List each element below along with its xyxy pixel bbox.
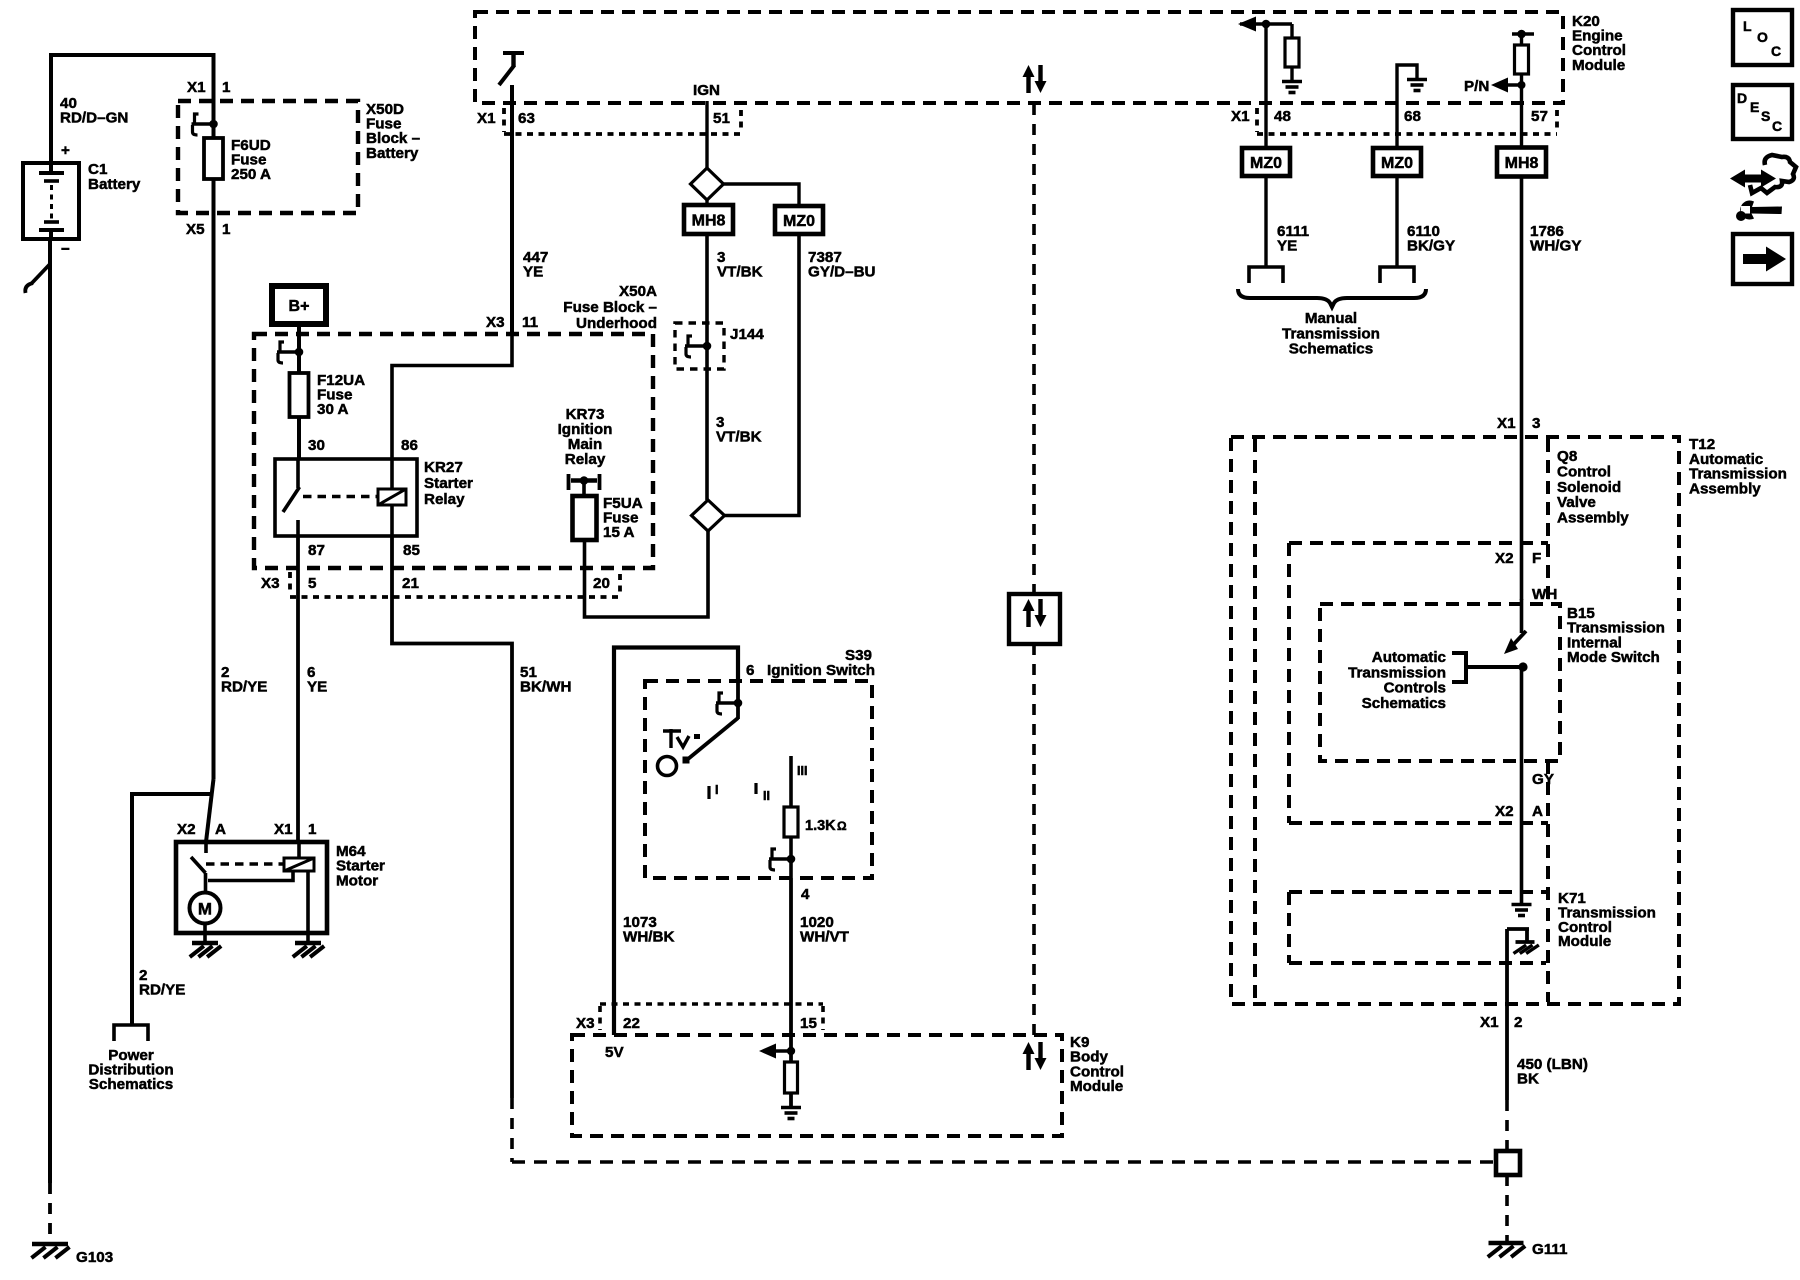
inner dashed box of T12 (right edge upper) <box>1546 439 1550 604</box>
relay KR27 Starter Relay (box) <box>275 459 417 536</box>
wire IGN stub from K20 bottom <box>705 101 708 168</box>
terminal B+ <box>272 286 326 324</box>
svg-text:5V: 5V <box>605 1044 624 1061</box>
svg-text:30 A: 30 A <box>317 401 349 418</box>
svg-text:X5: X5 <box>186 221 205 238</box>
KR73 relay contact symbol <box>567 474 571 490</box>
ignition switch S39 (dashed box) <box>645 681 872 878</box>
svg-text:YE: YE <box>1277 238 1297 255</box>
svg-text:11: 11 <box>522 314 539 331</box>
svg-text:IGN: IGN <box>693 82 720 99</box>
svg-text:Module: Module <box>1572 57 1625 74</box>
wire F12UA to relay KR27 pin 30 <box>297 417 301 459</box>
solenoid Q8 bottom edge <box>1289 541 1548 545</box>
S39 rotary contact circle <box>658 757 677 776</box>
svg-text:WH: WH <box>1532 586 1557 603</box>
wire GY <box>1520 667 1524 823</box>
wire 3 VT/BK <box>705 234 709 323</box>
svg-text:57: 57 <box>1531 108 1548 125</box>
svg-text:E: E <box>1750 99 1759 115</box>
wire motor to ground <box>203 924 207 934</box>
svg-text:85: 85 <box>403 542 420 559</box>
wire F6UD to X5 pin <box>212 179 216 213</box>
svg-text:X2: X2 <box>177 821 196 838</box>
svg-text:VT/BK: VT/BK <box>716 429 762 446</box>
icon arrow box <box>1733 234 1792 284</box>
svg-text:WH/GY: WH/GY <box>1530 238 1581 255</box>
dashed wire connector to G111 <box>1505 1175 1509 1242</box>
svg-text:Battery: Battery <box>366 145 419 162</box>
wire battery positive to fuse block (40 RD/D-GN) <box>51 55 214 173</box>
connector MH8 (pin 57) <box>1497 148 1546 177</box>
KR27 switch contact <box>296 459 300 488</box>
wire WH <box>1520 543 1524 600</box>
switch B15 Transmission Internal Mode Switch (dashed box) <box>1320 604 1560 761</box>
svg-text:86: 86 <box>401 437 418 454</box>
connector X2 box (bottom edge) <box>1289 821 1548 825</box>
junction dot B15 <box>1518 662 1527 671</box>
fuse block X50A (dashed box) <box>254 334 653 568</box>
connector MH8 (top) <box>684 205 733 234</box>
svg-text:Schematics: Schematics <box>1289 341 1373 358</box>
svg-text:A: A <box>215 821 226 838</box>
junction dot pin48 line <box>1262 20 1271 29</box>
svg-text:GY/D–BU: GY/D–BU <box>808 264 876 281</box>
S39 resistor branch wire <box>789 756 793 808</box>
motor M64 Starter Motor (box) <box>176 842 327 933</box>
wire diamond to MZ0 branch <box>724 184 800 207</box>
svg-text:Ignition Switch: Ignition Switch <box>767 662 875 679</box>
chassis ground symbol inside K71 <box>1507 927 1529 931</box>
wire 7387 GY/D-BU from MZ0 <box>725 233 800 516</box>
fuse block X50D (dashed box) <box>178 101 358 213</box>
svg-text:Fuse Block –: Fuse Block – <box>563 299 657 316</box>
svg-text:WH/VT: WH/VT <box>800 929 850 946</box>
wire KR27 pin 87 to starter motor (6 YE) <box>296 536 300 842</box>
motor symbol M <box>190 893 221 924</box>
S39 key symbol <box>663 729 689 748</box>
svg-text:G103: G103 <box>76 1249 113 1266</box>
inner dashed box of T12 (right edge lower) <box>1546 761 1550 1002</box>
position tick II <box>754 783 757 794</box>
wire 447 YE feed from K20 X1-63 <box>510 85 514 334</box>
svg-text:Battery: Battery <box>88 176 141 193</box>
svg-text:6: 6 <box>746 662 754 679</box>
svg-text:51: 51 <box>713 110 730 127</box>
ground inside K20 (pin48 branch) <box>1282 80 1302 84</box>
splice above fuse F12UA <box>277 350 299 354</box>
svg-text:Motor: Motor <box>336 872 378 889</box>
battery negative cable <box>48 239 52 1183</box>
svg-text:Schematics: Schematics <box>89 1076 173 1093</box>
splice at S39 pin 6 <box>736 681 740 719</box>
svg-text:15 A: 15 A <box>603 524 635 541</box>
svg-text:63: 63 <box>518 110 535 127</box>
KR27 relay coil <box>390 459 394 489</box>
wire 6110 BK/GY <box>1395 176 1398 267</box>
svg-text:5: 5 <box>308 575 317 592</box>
svg-text:GY: GY <box>1532 771 1554 788</box>
B15 switch blade with arrow <box>1520 599 1524 633</box>
svg-text:WH/BK: WH/BK <box>623 929 674 946</box>
icon double arrow with wrench <box>1730 170 1776 188</box>
wire KR27 pin 85 to 51 BK/WH <box>392 536 512 1098</box>
wire KR73 to fuse F5UA <box>582 480 586 498</box>
junction diamond lower <box>692 500 725 531</box>
svg-text:III: III <box>797 764 807 778</box>
resistor in K20 (pin 48 branch) <box>1290 24 1293 38</box>
svg-text:MH8: MH8 <box>1505 155 1539 172</box>
ground inside K71 <box>1512 903 1532 907</box>
svg-text:VT/BK: VT/BK <box>717 264 763 281</box>
svg-text:Module: Module <box>1558 933 1611 950</box>
svg-text:P/N: P/N <box>1464 78 1489 95</box>
dashed continuation of 51 BK/WH to TCM link <box>510 1098 514 1162</box>
wire 2 RD/YE fuse to starter (X5 to M64 X2-A) <box>212 213 216 779</box>
voltage tick for pin 57 pull-up <box>1512 32 1534 36</box>
svg-text:I: I <box>715 783 718 797</box>
position tick I <box>707 786 710 799</box>
fuse F12UA 30 A <box>290 373 309 417</box>
svg-text:BK/WH: BK/WH <box>520 679 571 696</box>
dashed wire to G103 <box>48 1183 52 1244</box>
updown arrows in BCM <box>1026 1052 1030 1070</box>
ground G111 <box>1489 1241 1524 1245</box>
KR27 actuation dashed link <box>303 495 378 499</box>
ground inside BCM <box>781 1106 801 1110</box>
S39 switch blade with contact tip <box>688 718 738 759</box>
splice J144 (dashed box) <box>675 323 724 369</box>
svg-text:X3: X3 <box>486 314 505 331</box>
svg-text:X3: X3 <box>261 575 280 592</box>
connector stub to Power Distribution Schematics <box>114 1025 148 1041</box>
svg-text:RD/D–GN: RD/D–GN <box>60 110 128 127</box>
svg-text:X50A: X50A <box>619 283 657 300</box>
svg-text:D: D <box>1737 90 1747 106</box>
module K9 Body Control Module (dashed box) <box>572 1035 1062 1136</box>
svg-text:22: 22 <box>623 1015 640 1032</box>
svg-text:1: 1 <box>222 221 231 238</box>
solenoid coil of M64 <box>297 842 301 858</box>
pin 51 wire from IGN <box>691 168 724 200</box>
svg-text:YE: YE <box>307 679 327 696</box>
svg-text:KR27: KR27 <box>424 459 463 476</box>
battery C1 box <box>23 163 79 239</box>
svg-text:O: O <box>1757 29 1768 45</box>
wire 3 VT/BK lower <box>705 369 709 500</box>
wire B+ into X50A <box>297 324 301 374</box>
svg-text:C: C <box>1771 43 1781 59</box>
connector X1 strip (left: pins 63, 51) <box>502 108 506 132</box>
svg-text:X2: X2 <box>1495 550 1514 567</box>
svg-text:X1: X1 <box>274 821 293 838</box>
svg-text:Assembly: Assembly <box>1557 510 1629 527</box>
svg-text:Schematics: Schematics <box>1362 695 1446 712</box>
svg-text:Relay: Relay <box>424 491 465 508</box>
wire into Q8 <box>1520 437 1524 543</box>
fuse F6UD 250 A <box>204 138 223 179</box>
battery plates <box>49 163 53 173</box>
svg-text:Ω: Ω <box>837 819 847 833</box>
resistor in K20 (pin 57 pull-up) <box>1520 34 1523 45</box>
module K71 Transmission Control Module (dashed box) <box>1289 890 1546 894</box>
icon LOC box <box>1733 10 1792 65</box>
connector stub 2 (manual transmission) <box>1380 267 1414 283</box>
splice below resistor <box>789 837 793 878</box>
dashed wire to TCM ground connector <box>512 1160 1494 1164</box>
svg-text:Starter: Starter <box>424 475 473 492</box>
connector MZ0 (pin 48) <box>1242 148 1290 176</box>
svg-text:MZ0: MZ0 <box>1250 155 1282 172</box>
svg-text:B+: B+ <box>289 298 310 315</box>
svg-text:Assembly: Assembly <box>1689 480 1761 497</box>
svg-text:X1: X1 <box>1480 1014 1499 1031</box>
svg-text:RD/YE: RD/YE <box>139 982 185 999</box>
svg-text:3: 3 <box>1532 415 1540 432</box>
arrow P/N <box>1491 78 1508 93</box>
svg-text:250 A: 250 A <box>231 166 271 183</box>
wire TCM ground to X1 2 <box>1505 929 1509 1100</box>
svg-text:X3: X3 <box>576 1015 595 1032</box>
svg-text:48: 48 <box>1274 108 1291 125</box>
svg-text:A: A <box>1532 803 1543 820</box>
wire diamond to MH8 <box>705 200 708 206</box>
resistor 1.3K ohm <box>784 807 798 837</box>
svg-text:MZ0: MZ0 <box>1381 155 1413 172</box>
inline connector square <box>1496 1151 1520 1175</box>
battery disconnect symbol <box>31 264 50 284</box>
svg-text:1: 1 <box>308 821 317 838</box>
wire branch to power distribution <box>132 794 210 1025</box>
updown arrows in box (serial data) <box>1009 594 1060 644</box>
wire K20 pin 57 internal <box>1520 74 1523 148</box>
svg-text:X1: X1 <box>1497 415 1516 432</box>
svg-text:4: 4 <box>801 886 810 903</box>
connector stub (manual transmission) <box>1249 267 1283 283</box>
svg-text:87: 87 <box>308 542 325 559</box>
svg-text:Underhood: Underhood <box>576 315 657 332</box>
wire into K71 to ground <box>1520 823 1524 905</box>
svg-text:−: − <box>61 241 70 258</box>
BCM internal arrow <box>759 1044 776 1059</box>
svg-text:J144: J144 <box>730 326 764 343</box>
connector X3 strip of BCM (pins 22, 15) <box>598 1006 602 1030</box>
svg-text:C: C <box>1772 118 1782 134</box>
ground under solenoid <box>306 933 310 943</box>
svg-text:20: 20 <box>593 575 610 592</box>
svg-text:RD/YE: RD/YE <box>221 679 267 696</box>
svg-text:2: 2 <box>1514 1014 1522 1031</box>
wire 447 YE into X50A to relay coil <box>392 334 512 459</box>
svg-text:G111: G111 <box>1532 1241 1568 1258</box>
M64 actuation dashed link <box>206 862 284 866</box>
bracket to schematics reference <box>1452 653 1466 682</box>
module K20 Engine Control Module (dashed box) <box>475 12 1563 103</box>
svg-text:L: L <box>1743 18 1752 34</box>
svg-text:Relay: Relay <box>565 451 606 468</box>
svg-text:MH8: MH8 <box>692 213 726 230</box>
wire coil to motor junction <box>208 871 293 881</box>
svg-text:Mode Switch: Mode Switch <box>1567 649 1660 666</box>
updown arrows on serial data line (top) <box>1026 75 1030 93</box>
svg-text:II: II <box>763 789 770 803</box>
wire 6111 YE <box>1264 176 1267 267</box>
svg-text:1: 1 <box>222 79 231 96</box>
switch inside K20 (ignition feed) <box>503 51 524 55</box>
svg-text:15: 15 <box>800 1015 817 1032</box>
wire 1020 WH/VT to BCM pin 15 <box>789 878 793 1035</box>
ground inside K20 (pin 68) <box>1407 78 1427 82</box>
wire F5UA through pin 20 to ignition feed <box>585 531 709 617</box>
svg-text:MZ0: MZ0 <box>783 213 815 230</box>
connector X1 strip (right: pins 48, 68, 57) <box>1255 108 1259 132</box>
connector MZ0 (top) <box>775 206 823 234</box>
fuse F5UA 15 A <box>573 496 597 540</box>
svg-text:68: 68 <box>1404 108 1421 125</box>
svg-text:1.3K: 1.3K <box>805 818 836 834</box>
svg-text:X2: X2 <box>1495 803 1514 820</box>
brace manual transmission <box>1238 289 1426 307</box>
connector X2 box (left edge) <box>1287 543 1291 823</box>
dashed wire 450 to connector <box>1505 1100 1509 1151</box>
connector MZ0 (pin 68) <box>1373 148 1421 176</box>
ground G103 <box>32 1242 68 1246</box>
svg-text:X1: X1 <box>477 110 496 127</box>
ground under motor <box>203 933 207 943</box>
wire K20 pin 48 internal <box>1264 24 1267 148</box>
K20 internal arrow to pin 48 <box>1240 22 1292 26</box>
svg-text:X1: X1 <box>1231 108 1250 125</box>
svg-text:+: + <box>61 142 70 159</box>
icon DESC box <box>1733 85 1792 139</box>
M64 switch blade <box>204 842 208 853</box>
svg-text:30: 30 <box>308 437 325 454</box>
svg-text:M: M <box>198 900 212 919</box>
svg-text:21: 21 <box>402 575 419 592</box>
svg-text:F: F <box>1532 550 1541 567</box>
wire coil to ground <box>306 871 310 933</box>
svg-text:X1: X1 <box>187 79 206 96</box>
svg-text:Module: Module <box>1070 1078 1123 1095</box>
svg-text:BK/GY: BK/GY <box>1407 238 1455 255</box>
svg-text:YE: YE <box>523 264 543 281</box>
wire 1786 WH/GY to T12 <box>1520 176 1524 437</box>
wire bracket to junction <box>1466 665 1523 669</box>
splice symbol above fuse F6UD <box>212 101 216 140</box>
inner dashed box of T12 (left edge) <box>1253 439 1257 1002</box>
svg-text:BK: BK <box>1517 1071 1539 1088</box>
assembly T12 Automatic Transmission (outer dashed box) <box>1231 437 1679 1004</box>
wire BCM 22 to ignition switch pin 6 (1073 WH/BK) <box>614 648 738 1036</box>
connector X3 strip of X50A (pins 5, 21, 20) <box>288 572 292 594</box>
wire K20 pin 68 internal <box>1397 65 1417 148</box>
dashed serial data line (vertical) <box>1032 104 1036 594</box>
splice symbol J144 <box>705 323 709 369</box>
svg-text:S: S <box>1761 108 1770 124</box>
BCM pull-down resistor <box>789 1035 793 1063</box>
dashed serial data line to BCM <box>1032 644 1036 1035</box>
